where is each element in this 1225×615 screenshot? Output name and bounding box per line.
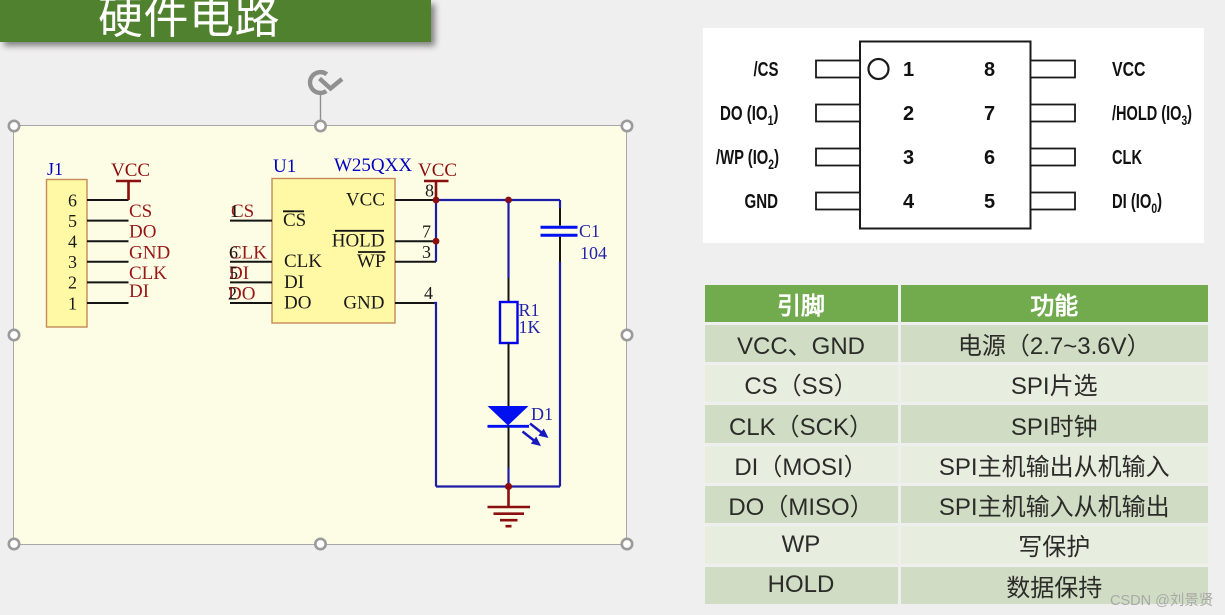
svg-text:7: 7 [984, 103, 995, 125]
watermark CSDN [1110, 589, 1213, 610]
wire VCC vertical to pins 7,3 [435, 200, 437, 262]
selection handles [0, 112, 650, 562]
junction ground [505, 483, 512, 490]
pin stub 2 [816, 105, 860, 122]
svg-text:VCC: VCC [1112, 59, 1146, 81]
wire stub U1 DO pin2 [230, 302, 272, 304]
svg-text:2: 2 [903, 103, 914, 125]
connector J1 body [47, 180, 88, 328]
pin stub 1 [816, 61, 860, 78]
table row CS [705, 365, 1209, 402]
capacitor C1 branch wire from top [559, 200, 561, 208]
LED cathode wire down [508, 426, 510, 468]
handle bottom-right [622, 539, 632, 549]
handle bottom-mid [315, 539, 325, 549]
pinout panel [703, 28, 1204, 243]
svg-text:1: 1 [903, 59, 914, 81]
svg-text:4: 4 [903, 191, 915, 213]
wire stub U1 DI pin5 [230, 281, 272, 283]
wire VCC net top [436, 199, 560, 201]
svg-text:/HOLD (IO3): /HOLD (IO3) [1112, 103, 1192, 128]
handle mid-right [622, 330, 632, 340]
junction pin8 [433, 197, 440, 204]
handle mid-left [9, 330, 19, 340]
IC package body [860, 42, 1031, 229]
pin stub 8 [1031, 61, 1076, 78]
svg-text:6: 6 [984, 147, 995, 169]
pin stub 7 [1031, 105, 1076, 122]
pin stub U1 VCC pin8 [395, 199, 436, 201]
wire J1 pin3 [87, 261, 129, 263]
rotation handle [300, 62, 350, 124]
junction pin7 [433, 238, 440, 245]
wire J1 pin5 [87, 220, 129, 222]
handle top-mid [315, 121, 325, 131]
table row WP [705, 526, 1209, 563]
table header row [705, 285, 1209, 322]
wire LED to gnd rail [507, 468, 509, 487]
wire J1 pin6 [87, 199, 129, 201]
pin function table [705, 285, 1209, 607]
wire J1 pin4 [87, 240, 129, 242]
table row CLK [705, 405, 1209, 442]
wire stub U1 CS pin1 [230, 220, 272, 222]
wire J1 pin2 [87, 281, 129, 283]
pin stub 3 [816, 149, 860, 166]
pin stub U1 GND pin4 [395, 302, 436, 304]
VCC power symbol at U1 pin8 [424, 181, 449, 200]
handle top-left [9, 121, 19, 131]
wire J1 pin1 [87, 302, 129, 304]
resistor R1 pin top [508, 278, 510, 302]
svg-text:8: 8 [984, 59, 995, 81]
pin stub 5 [1031, 193, 1076, 210]
title banner 硬件电路 [0, 0, 431, 42]
wire ground rail bottom [436, 485, 560, 487]
VCC power symbol at J1 [116, 181, 141, 200]
svg-text:CLK: CLK [1112, 147, 1142, 169]
resistor R1 [500, 302, 518, 343]
wire R1 branch upper [507, 202, 509, 279]
table row VCC GND [705, 325, 1209, 362]
svg-text:5: 5 [984, 191, 995, 213]
resistor R1 pin bottom / wire to LED [508, 343, 510, 406]
wire C1 branch down [559, 262, 561, 487]
pin1 indicator circle [869, 59, 889, 79]
schematic canvas (selected picture) [14, 126, 626, 544]
LED D1 [488, 406, 552, 449]
pin stub 6 [1031, 149, 1076, 166]
capacitor C1 [541, 227, 578, 235]
IC U1 body [272, 179, 395, 324]
svg-text:GND: GND [745, 191, 779, 213]
pin stub 4 [816, 193, 860, 210]
table row HOLD [705, 567, 1209, 604]
handle bottom-left [9, 539, 19, 549]
wire stub U1 CLK pin6 [230, 261, 272, 263]
svg-text:3: 3 [903, 147, 914, 169]
capacitor C1 pin bottom [559, 237, 561, 262]
wire GND pin4 down [434, 303, 436, 487]
table row DI [705, 446, 1209, 483]
table row DO [705, 486, 1209, 523]
handle top-right [622, 121, 632, 131]
pin stub U1 WP pin3 [395, 261, 436, 263]
junction R1 top [505, 197, 512, 204]
svg-text:/CS: /CS [754, 59, 779, 81]
capacitor C1 pin top [559, 208, 561, 226]
ground symbol [488, 487, 531, 527]
J1 pin numbers 6..1 [68, 190, 77, 313]
schematic svg placeholder [14, 126, 627, 544]
pin stub U1 HOLD pin7 [395, 240, 436, 242]
